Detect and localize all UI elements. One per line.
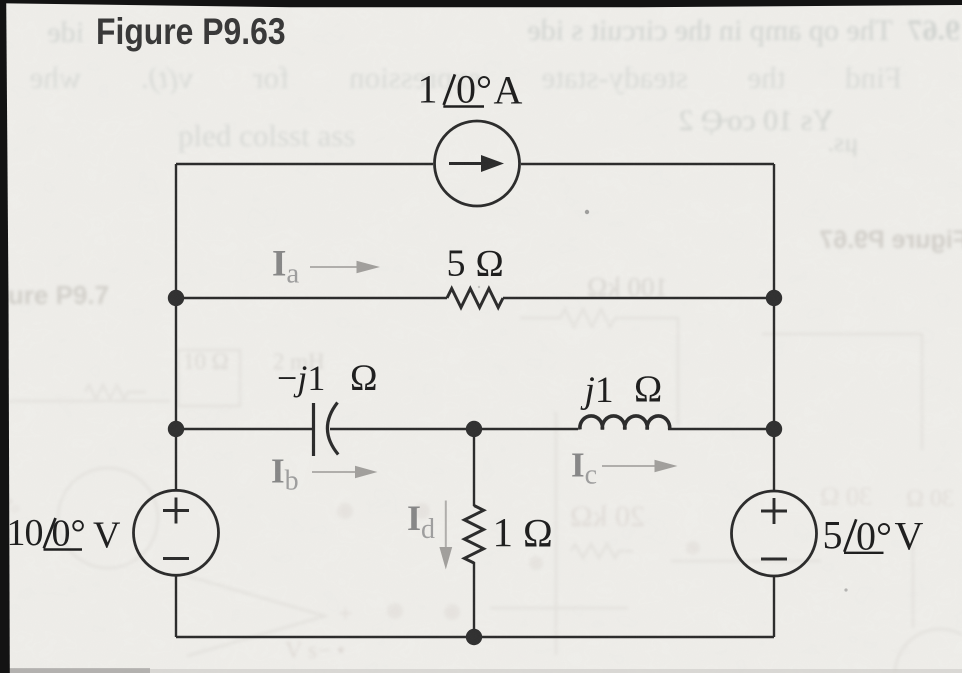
label 5/0 V [823, 513, 924, 559]
ghost pad dot [337, 503, 353, 519]
ghost 100 ohm [552, 272, 668, 303]
ghost vertical line mid [555, 412, 558, 655]
resistor R 1ohm (vertical) [464, 506, 483, 563]
ghost horiz lines right [490, 561, 821, 608]
ghost bleed-through line 2 (mirrored: Find the steady-state expression for ... whe) [22, 60, 902, 96]
ghost bleed-through line 1 (mirrored: 9.67 The op amp in the circuit ... is ide) [375, 14, 960, 48]
wire middle vertical upper [473, 429, 475, 506]
wire right vertical upper [773, 164, 775, 490]
current source U1 circle [435, 121, 520, 206]
ghost line 1 left wrap [4, 16, 84, 50]
ghost circle bottom right [895, 629, 962, 673]
ghost igure P9.7 left [0, 280, 109, 311]
svg-text:5: 5 [447, 243, 466, 285]
svg-text:10: 10 [7, 512, 44, 554]
wire cap row mid [330, 428, 578, 430]
ghost box around 10ohm [178, 350, 240, 406]
V2 plus [761, 498, 787, 524]
svg-text:0°: 0° [456, 67, 492, 112]
wire left vertical upper [175, 164, 177, 489]
V1 plus [163, 498, 189, 524]
svg-text:Ω: Ω [634, 369, 662, 411]
ghost 20 kOhm [545, 500, 645, 534]
bottom scan shading [0, 669, 962, 673]
wire cap row left [176, 428, 313, 430]
ghost plus near triangle [338, 599, 353, 629]
svg-text:Ib: Ib [271, 452, 299, 497]
ghost line 3 left (pled co...) [178, 118, 355, 154]
arrow Ib [312, 471, 356, 473]
capacitor -j1 (curved plate) [327, 403, 338, 455]
ghost 10 ohm left [183, 349, 325, 375]
label 10/0 V [7, 512, 122, 557]
ghost box right [762, 334, 922, 450]
svg-text:1: 1 [418, 67, 438, 112]
ghost 30 ohm right-2 [800, 482, 872, 512]
svg-text:Ia: Ia [272, 244, 299, 290]
wire middle vertical lower [473, 562, 475, 637]
current source arrow [449, 162, 483, 165]
svg-text:V: V [93, 515, 121, 557]
svg-text:Ω: Ω [350, 358, 378, 399]
voltage source V2 5V circle [732, 491, 817, 576]
ghost e-mark left edge [2, 490, 20, 517]
svg-text:Id: Id [407, 498, 435, 545]
ghost pad dot [686, 541, 700, 555]
wire: top loop [176, 164, 774, 637]
ghost zigzag left 10ohm [85, 385, 146, 399]
label 1/0 A [418, 67, 523, 113]
capacitor -j1 (straight plate) [312, 403, 315, 456]
ghost pad dot [387, 603, 403, 619]
wire 5ohm row right [503, 297, 774, 299]
ghost circle left [58, 468, 158, 568]
wire top-left to current source [176, 163, 433, 165]
ghost 30 ohm right [888, 486, 954, 513]
node dot left 5ohm row [168, 290, 184, 306]
svg-text:Ω: Ω [476, 243, 504, 285]
svg-text:Ω: Ω [523, 511, 553, 556]
arrow Ic [602, 465, 656, 467]
node dot left cap row [168, 421, 184, 437]
node dot right 5ohm row [766, 290, 782, 306]
V1 minus [163, 557, 189, 560]
svg-text:j1: j1 [580, 370, 614, 411]
inductor j1 [580, 416, 670, 430]
svg-text:Ic: Ic [571, 446, 597, 491]
wire cap row right [668, 428, 774, 430]
arrow Id (down) [445, 501, 447, 550]
node dot bottom [466, 629, 482, 645]
ghost vert line right [912, 545, 915, 628]
ghost resistor zigzag under 100kohm [520, 309, 678, 425]
black scan edge top [0, 0, 962, 12]
svg-text:0°: 0° [52, 513, 86, 555]
ghost line left y401 [8, 400, 170, 403]
speck marks [585, 210, 589, 214]
wire 5ohm row left [176, 297, 447, 299]
ghost opamp triangle [187, 576, 325, 656]
svg-text:−j1: −j1 [277, 358, 325, 398]
wire bottom [176, 636, 774, 638]
ghost pad dot [444, 604, 460, 620]
ghost pad dot [414, 503, 430, 519]
ghost line 3 right (mirrored cos 10t V) [622, 104, 834, 138]
black scan edge left [0, 0, 12, 673]
ghost figure P9.67 mirrored right [818, 226, 962, 255]
ghost zigzag under 20kohm [571, 544, 633, 558]
ghost mu-s right [800, 128, 858, 158]
svg-text:1: 1 [493, 509, 514, 555]
svg-text:A: A [494, 68, 523, 113]
voltage source V1 10V circle [134, 490, 219, 575]
arrow Ia [310, 266, 358, 268]
node dot mid cap row [466, 421, 482, 437]
wire left vertical lower [175, 576, 177, 637]
resistor R 5ohm [447, 289, 503, 308]
svg-text:V: V [895, 514, 924, 559]
svg-text:5: 5 [823, 513, 843, 558]
V2 minus [761, 558, 787, 561]
ghost -5V bottom [285, 638, 345, 665]
wire current source to top-right [521, 163, 774, 165]
ghost pad dot [529, 556, 543, 570]
wire right vertical lower [773, 577, 775, 637]
node dot right cap row [766, 421, 782, 437]
figure title [96, 10, 286, 53]
